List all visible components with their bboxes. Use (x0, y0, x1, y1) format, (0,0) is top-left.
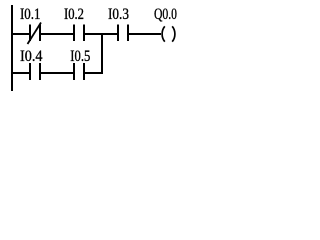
wire rung1 I0.3 to coil (127, 33, 161, 35)
contact I0.3 left bar (117, 25, 119, 42)
coil Q0.0 right parenthesis (172, 26, 175, 41)
contact I0.1 right bar (39, 25, 41, 42)
contact I0.4 left bar (29, 63, 31, 80)
contact I0.1 left bar (29, 25, 31, 42)
svg-text:I0.2: I0.2 (64, 6, 84, 23)
contact I0.3 right bar (127, 25, 129, 42)
wire rung2 rail to I0.4 (12, 72, 31, 74)
contact I0.1 NC slash (28, 23, 42, 45)
contact I0.5 left bar (73, 63, 75, 80)
wire rung1 I0.1 to I0.2 (39, 33, 75, 35)
wire rung1 rail to I0.1 (12, 33, 31, 35)
svg-text:I0.3: I0.3 (108, 6, 129, 23)
wire rung2 I0.5 to junction (83, 72, 103, 74)
contact I0.2 right bar (83, 25, 85, 42)
svg-text:I0.4: I0.4 (20, 48, 43, 65)
wire rung1 I0.2 to I0.3 (83, 33, 119, 35)
contact I0.5 right bar (83, 63, 85, 80)
svg-text:I0.5: I0.5 (70, 48, 90, 65)
contact I0.4 right bar (39, 63, 41, 80)
wire rung2 I0.4 to I0.5 (39, 72, 75, 74)
contact I0.2 left bar (73, 25, 75, 42)
junction vertical wire (101, 33, 103, 74)
coil Q0.0 left parenthesis (162, 26, 165, 41)
left power rail (11, 5, 13, 91)
svg-text:I0.1: I0.1 (20, 6, 41, 23)
svg-text:Q0.0: Q0.0 (154, 6, 177, 23)
